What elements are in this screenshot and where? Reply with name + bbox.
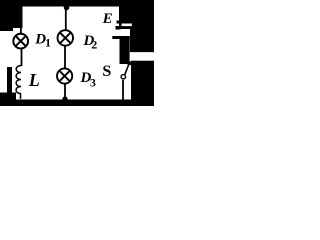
svg-text:2: 2: [91, 38, 97, 52]
svg-text:1: 1: [45, 36, 51, 50]
svg-text:E: E: [102, 11, 113, 27]
svg-text:3: 3: [90, 75, 96, 89]
svg-text:L: L: [28, 70, 40, 90]
svg-text:S: S: [102, 63, 111, 80]
